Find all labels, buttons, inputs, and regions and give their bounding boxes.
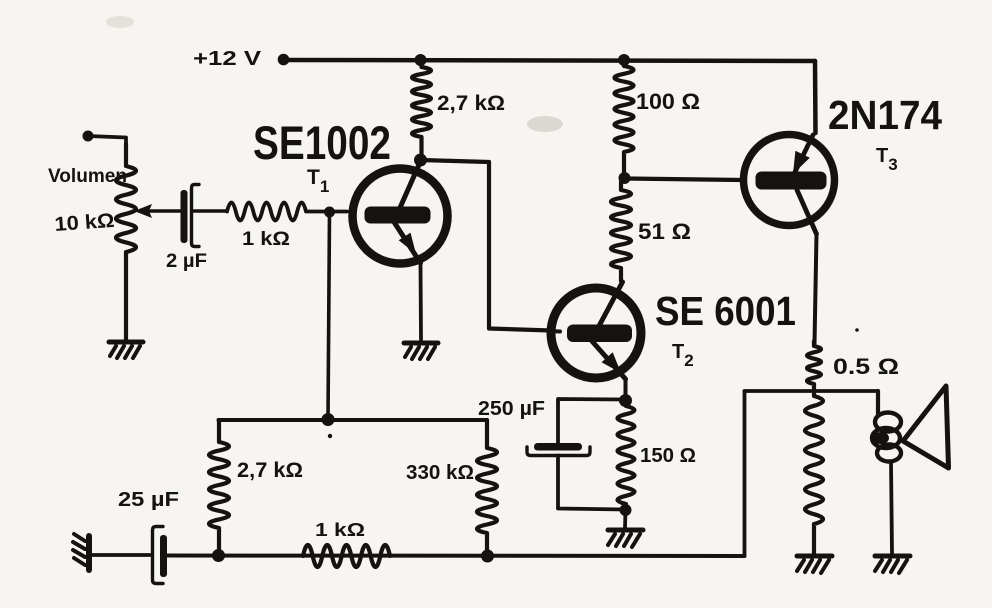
- wire C3 bottom to 150R bottom: [558, 456, 626, 510]
- capacitor C2 25uF left curved plate: [153, 527, 164, 584]
- transistor T1 SE1002 circle: [353, 169, 448, 264]
- node 150R bottom junction: [620, 504, 632, 516]
- resistor 330k feedback: [477, 420, 497, 555]
- capacitor C1 2uF right curved plate: [192, 185, 200, 247]
- svg-text:2,7 kΩ: 2,7 kΩ: [437, 92, 505, 115]
- speaker voice coil: [876, 391, 880, 414]
- wire rail drop to T3 emitter: [813, 61, 818, 133]
- transistor T3 collector stroke: [797, 190, 817, 234]
- resistor 150 ohm: [618, 400, 635, 510]
- potentiometer wiper arrow: [144, 209, 183, 213]
- transistor T3 base bar: [756, 172, 827, 190]
- capacitor C3 250uF bottom curved plate: [527, 447, 590, 456]
- node T1 collector junction: [414, 154, 427, 167]
- node rail junction above 2.7k: [415, 54, 427, 66]
- wire T3 collector down to 0.5R: [815, 234, 817, 344]
- wire T2 base lead: [548, 329, 560, 334]
- ground under 150R: [608, 530, 643, 547]
- node output junction below 0.5R: [745, 389, 879, 393]
- wire T1 base junction down to bias network: [328, 212, 330, 419]
- ground under speaker: [875, 556, 910, 573]
- wire T2 emitter down: [624, 379, 628, 400]
- svg-text:51 Ω: 51 Ω: [638, 219, 691, 244]
- wire input to potentiometer top: [88, 136, 126, 146]
- wire speaker to ground: [891, 462, 892, 553]
- wire T1 emitter to ground: [419, 263, 423, 340]
- transistor T2 SE6001 circle: [551, 288, 641, 378]
- resistor R1 2.7k collector load: [412, 60, 431, 158]
- resistor 1k bottom: [303, 545, 390, 567]
- speaker horn: [903, 386, 949, 468]
- capacitor C1 2uF left plate: [181, 190, 188, 243]
- capacitor C2 25uF right plate: [160, 535, 167, 577]
- wire ground to C2: [92, 553, 150, 557]
- capacitor C3 250uF top plate: [534, 443, 582, 451]
- transistor T2 collector stroke: [599, 282, 623, 326]
- transistor T1 emitter stroke with arrow: [394, 222, 421, 263]
- node bottom junction left: [212, 549, 225, 562]
- svg-text:Volumen: Volumen: [48, 166, 127, 187]
- resistor 0.5 ohm: [807, 341, 821, 390]
- svg-text:150 Ω: 150 Ω: [640, 445, 696, 467]
- svg-text:2 µF: 2 µF: [166, 251, 207, 272]
- wire to ground below 150R: [623, 510, 627, 528]
- wire T1 collector to T2 base coupling: [421, 160, 552, 331]
- ground below wavy wire: [797, 556, 832, 573]
- speck below bias junction: [328, 434, 332, 438]
- svg-text:250 µF: 250 µF: [478, 398, 545, 420]
- wire C1 to R 1k: [194, 209, 227, 213]
- resistor 100 ohm: [615, 60, 634, 176]
- transistor T3 2N174 circle: [744, 135, 835, 226]
- transistor T1 base bar: [365, 207, 431, 224]
- node bottom junction right: [481, 550, 494, 563]
- transistor T3 emitter stroke with arrow: [794, 135, 813, 174]
- node T2 emitter junction: [619, 394, 632, 407]
- resistor 51 ohm: [611, 182, 631, 281]
- wire T3 base: [625, 179, 743, 181]
- wire output left drop to bottom rail: [743, 391, 747, 556]
- transistor T2 emitter stroke with arrow: [591, 340, 626, 379]
- svg-text:2N174: 2N174: [828, 92, 942, 138]
- svg-text:25 µF: 25 µF: [118, 489, 179, 511]
- wire emitter junction to C3 top: [558, 399, 626, 444]
- wire wavy to ground below output: [805, 391, 823, 553]
- wire bias top link: [219, 418, 488, 422]
- svg-text:10 kΩ: 10 kΩ: [54, 210, 115, 236]
- faint scanner smudge: [527, 116, 563, 132]
- svg-text:1 kΩ: 1 kΩ: [315, 520, 365, 540]
- svg-text:100 Ω: 100 Ω: [636, 89, 700, 114]
- resistor 2.7k bias: [209, 420, 229, 555]
- wire bottom rail: [165, 554, 745, 559]
- ground under T1: [404, 343, 438, 359]
- ground under potentiometer: [109, 342, 143, 358]
- svg-text:2,7 kΩ: 2,7 kΩ: [237, 459, 303, 482]
- node bias link junction: [322, 413, 335, 426]
- node T3 base junction: [619, 172, 631, 184]
- potentiometer 10k Volumen: [116, 144, 136, 339]
- node T1 base junction: [324, 207, 335, 218]
- transistor T1 collector stroke: [399, 158, 422, 210]
- svg-text:SE1002: SE1002: [253, 116, 391, 169]
- wire +12V supply rail: [283, 60, 815, 61]
- node +12V terminal dot: [278, 54, 290, 66]
- svg-text:330 kΩ: 330 kΩ: [406, 462, 474, 484]
- transistor T2 base bar: [567, 325, 632, 343]
- svg-text:+12 V: +12 V: [193, 48, 262, 70]
- resistor 1k series base: [227, 203, 347, 221]
- svg-text:1 kΩ: 1 kΩ: [242, 229, 290, 250]
- speck near T3: [855, 328, 859, 332]
- node rail junction above 100R: [618, 54, 630, 66]
- node input terminal dot: [83, 131, 94, 142]
- svg-text:0.5 Ω: 0.5 Ω: [833, 354, 899, 379]
- svg-text:SE 6001: SE 6001: [655, 288, 796, 334]
- ground left of 25uF: [73, 534, 89, 570]
